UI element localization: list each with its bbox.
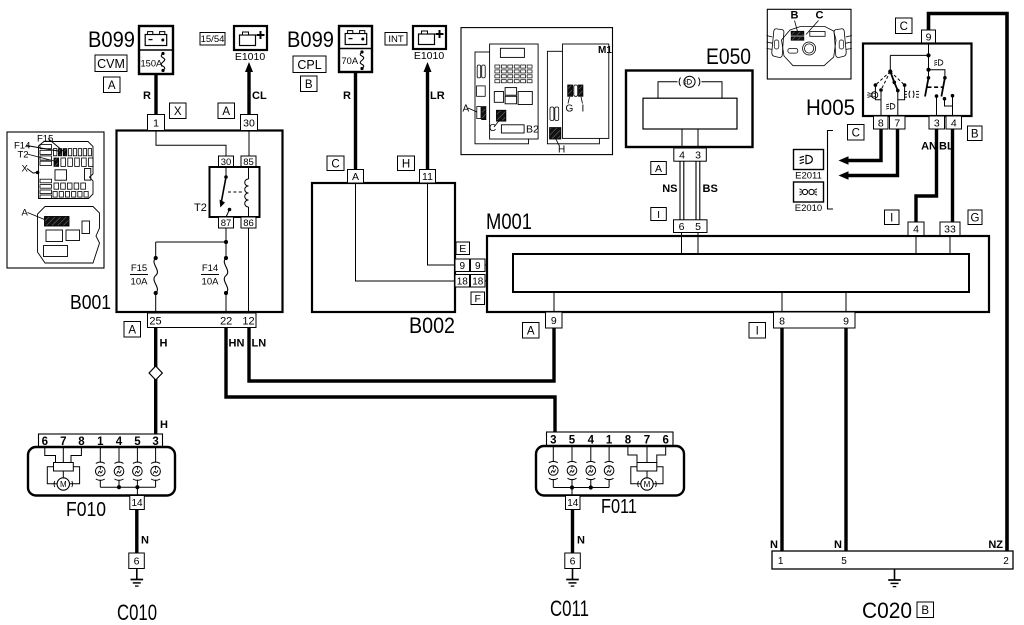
E050 lamp symbol (679, 76, 700, 87)
svg-text:HN: HN (229, 338, 245, 350)
svg-text:15/54: 15/54 (201, 34, 225, 45)
pin 4 (H005 bottom) (946, 116, 962, 129)
svg-text:5: 5 (569, 434, 576, 446)
svg-text:2: 2 (1003, 556, 1009, 567)
svg-text:1: 1 (778, 556, 784, 567)
pin 1 (B001 top) (148, 115, 165, 131)
svg-text:70A: 70A (342, 56, 359, 66)
svg-text:A: A (222, 106, 230, 118)
svg-text:H: H (558, 145, 565, 156)
pin 11 (B002 top) (420, 170, 436, 184)
label box B (H005) (968, 126, 983, 141)
svg-text:C: C (331, 158, 339, 170)
svg-text:5: 5 (695, 221, 701, 233)
svg-text:F15: F15 (37, 134, 53, 145)
front light cluster F011 pin strip (547, 432, 674, 446)
svg-text:AN: AN (921, 141, 937, 153)
relay pin 30 (219, 156, 234, 168)
wire AN H005 pin 3 to M001 pin 4 (916, 129, 937, 222)
svg-text:9: 9 (551, 315, 557, 327)
wire H005 pin 7 to E2010 (839, 129, 898, 180)
wire label H (lower) (160, 419, 168, 431)
wire LR from B002 pin 11 to E1010 (424, 62, 432, 170)
pins 4 3 (E050) (674, 148, 707, 162)
label box X (R wire) (170, 103, 187, 119)
svg-text:4: 4 (679, 150, 685, 162)
svg-text:N: N (577, 535, 585, 547)
wire lamp left (658, 82, 678, 98)
ground stud C020 strip (772, 551, 1013, 569)
svg-text:9: 9 (475, 261, 481, 272)
battery B099 symbol with 70A fuse (339, 26, 372, 72)
F010 lamp pin 5 (133, 447, 143, 487)
svg-text:N: N (141, 535, 149, 547)
relay pin 87 (219, 217, 234, 229)
pin 14 (F011) (566, 496, 581, 510)
svg-text:5: 5 (841, 556, 847, 567)
svg-text:A: A (108, 80, 116, 92)
H005 parking light icon (867, 92, 878, 99)
svg-text:F010: F010 (66, 499, 106, 521)
svg-text:22: 22 (220, 316, 232, 328)
column switch H005 box (863, 44, 972, 117)
svg-text:H: H (402, 158, 410, 170)
wire label BL (939, 141, 954, 153)
svg-text:150A: 150A (141, 59, 164, 69)
inline connector diamond on wire H (149, 366, 162, 380)
svg-text:3: 3 (934, 117, 940, 129)
svg-text:18: 18 (472, 276, 484, 287)
wire 9 into M001 (485, 264, 513, 266)
front light cluster F010 pin strip (39, 434, 163, 448)
pin 9-9 pair (B002/M001) (455, 259, 485, 272)
wire label NS (662, 183, 677, 195)
svg-text:1: 1 (153, 117, 159, 129)
svg-text:10A: 10A (202, 277, 220, 288)
svg-text:I: I (756, 325, 759, 337)
svg-text:C011: C011 (550, 596, 589, 621)
H005 dimmer blade 1 (925, 78, 929, 97)
H005 light switch wiper (890, 72, 899, 93)
H005 node from pin 9 (926, 44, 930, 80)
svg-text:B: B (971, 128, 979, 140)
svg-text:6: 6 (134, 556, 140, 568)
svg-text:E: E (459, 243, 466, 255)
H005 wire to pin 8 (875, 85, 881, 116)
pin 14 (F010) (130, 496, 145, 510)
label box A (M001 bottom) (523, 323, 540, 339)
junction unit B001 box (117, 131, 283, 313)
label box B (C020) (917, 602, 934, 618)
wire label CL (252, 90, 267, 102)
ground C010 label (117, 600, 157, 625)
label box A (E050) (651, 162, 667, 175)
relay T2 link (dashed) (228, 191, 243, 193)
F010 motor circuit (45, 447, 82, 490)
relay pin 85 (241, 156, 256, 168)
svg-text:C020: C020 (862, 598, 912, 623)
svg-text:G: G (971, 212, 980, 224)
H005 side marker icon (904, 91, 919, 98)
body computer M001 outer box (487, 236, 989, 312)
wire R from B099 to B001 pin 1 (154, 74, 157, 115)
svg-text:3: 3 (550, 434, 556, 446)
label box A (CL wire) (218, 103, 235, 119)
svg-text:86: 86 (243, 218, 254, 229)
svg-text:8: 8 (625, 434, 632, 446)
svg-text:M1: M1 (598, 45, 612, 56)
svg-text:6: 6 (570, 556, 576, 568)
wire label BS (703, 183, 718, 195)
svg-text:BS: BS (703, 183, 718, 195)
F011 lamp pin 1 (604, 446, 614, 488)
svg-text:6: 6 (662, 434, 668, 446)
fusebox location diagram (7, 132, 104, 268)
svg-text:4: 4 (913, 224, 919, 236)
high beam lamp E2011 (794, 150, 824, 182)
wire E050 to pin 3 (697, 129, 699, 148)
pin 6 (C010) (129, 553, 145, 569)
wire label N (F010) (141, 535, 149, 547)
bracket grouping E2011/E2010 (828, 131, 834, 210)
wire BS (twin) (696, 161, 700, 220)
wire N from M001 pin 8 to C020 pin 1 (780, 328, 783, 551)
wire M001 to pin 9b bottom (845, 292, 847, 312)
svg-text:E2011: E2011 (795, 171, 822, 182)
svg-text:C: C (852, 127, 860, 139)
fuse F15 value label (130, 263, 148, 288)
H005 wire to pin 3 (935, 94, 939, 116)
label box C (H005 bottom) (848, 125, 865, 141)
svg-text:14: 14 (567, 498, 579, 509)
svg-text:I: I (890, 212, 893, 224)
lamp E2010 (794, 182, 824, 214)
front light cluster F010 body (28, 447, 175, 496)
svg-text:A: A (128, 324, 136, 336)
svg-text:F: F (475, 293, 481, 305)
wire label N (pin 5) (834, 539, 842, 551)
H005 dimmer dashed link (928, 86, 944, 88)
pin 3 (H005 bottom) (929, 116, 945, 129)
svg-text:4: 4 (588, 434, 595, 446)
svg-text:C010: C010 (117, 600, 157, 625)
svg-text:T2: T2 (18, 150, 29, 161)
label box I (H005 wires) (885, 210, 900, 225)
wire B002 pin A to pin 18 (356, 183, 456, 281)
svg-text:F15: F15 (131, 263, 147, 274)
label box A (B099 left) (104, 77, 121, 93)
svg-text:LR: LR (430, 90, 445, 102)
svg-text:A: A (655, 163, 662, 175)
svg-text:CVM: CVM (97, 57, 125, 71)
svg-text:A: A (527, 325, 535, 337)
svg-text:B: B (791, 10, 799, 22)
column switch H005 label (806, 95, 855, 120)
wire M001 to pin 8 bottom (781, 292, 783, 312)
wire N from F010 to C010 (135, 510, 138, 554)
svg-text:M: M (60, 480, 67, 489)
F011 lamp pin 4 (586, 446, 596, 488)
label box C (H005 top) (896, 18, 913, 34)
svg-text:B099: B099 (287, 27, 334, 52)
svg-text:N: N (834, 539, 842, 551)
svg-text:6: 6 (679, 221, 685, 233)
H005 high beam icon (934, 60, 943, 66)
svg-text:R: R (143, 90, 151, 102)
svg-text:B002: B002 (409, 313, 455, 338)
label box H (B002) (398, 156, 415, 171)
wire pin5 into inner box (697, 233, 699, 255)
relay T2 label (194, 202, 207, 214)
B002 label (409, 313, 455, 338)
F011 label (601, 496, 637, 518)
ground C020 label (862, 598, 912, 623)
pin 4 (M001 top) (908, 222, 924, 236)
ground C020 symbol (888, 569, 901, 587)
svg-text:B099: B099 (88, 27, 135, 52)
wire CL from B001 pin 30 to E1010 (245, 62, 253, 115)
svg-text:9: 9 (843, 316, 849, 328)
H005 low beam icon (886, 103, 895, 109)
pin 8 (H005 bottom) (874, 116, 889, 129)
svg-text:INT: INT (388, 34, 404, 45)
svg-text:10A: 10A (131, 277, 149, 288)
wire from H005 pin 9 to C020 pin 2 (right edge) (929, 14, 1008, 552)
wire label LN (252, 338, 267, 350)
svg-text:B: B (921, 605, 929, 617)
svg-text:12: 12 (242, 316, 254, 328)
H005 dimmer link wire (929, 70, 947, 80)
battery node E1010 (left) (234, 26, 267, 63)
headlamp unit E050 box (626, 71, 753, 148)
label box I (E050) (651, 208, 667, 221)
fuse box B002 (312, 183, 455, 312)
relay T2 contact (220, 167, 232, 217)
wire label H (160, 338, 168, 350)
wire label AN (921, 141, 937, 153)
pin 18-18 pair (B002/M001) (455, 275, 485, 288)
label box B (B099 center) (301, 76, 318, 92)
wire pin30 to relay 85 (248, 131, 250, 157)
pin 33 (M001 top) (940, 222, 960, 236)
wire H to F010 pin 3 (154, 328, 157, 434)
pins 25 22 12 (B001 bottom) (148, 313, 257, 328)
B001 label (70, 292, 111, 314)
wire label NZ (988, 539, 1003, 551)
wire lamp right (702, 82, 723, 98)
fuse F14 value label (201, 263, 219, 288)
F010 lamp pin 3 (151, 447, 161, 487)
svg-text:M: M (644, 480, 651, 489)
F010 lamp pin 4 (114, 447, 124, 487)
wire NS (twin) (680, 161, 684, 220)
svg-text:LN: LN (252, 338, 267, 350)
relay pin 86 (241, 217, 256, 229)
label box C (B002) (327, 156, 344, 171)
svg-text:F011: F011 (601, 496, 637, 518)
pin 9 (H005 top) (922, 30, 936, 44)
wire pin4 into inner box (915, 236, 917, 255)
svg-text:1: 1 (606, 434, 613, 446)
node box 15/54 (200, 33, 225, 46)
wire N from M001 pin 9 to C020 pin 5 (844, 328, 847, 551)
ground C011 label (550, 596, 589, 621)
svg-text:I: I (657, 209, 660, 221)
svg-text:3: 3 (695, 150, 701, 162)
svg-text:NZ: NZ (988, 539, 1003, 551)
F010 label (66, 499, 106, 521)
svg-text:E1010: E1010 (414, 50, 445, 62)
H005 contact to pin 4 (943, 94, 955, 116)
relay T2 box (210, 167, 260, 217)
svg-text:E2010: E2010 (795, 203, 822, 214)
pin 6 (C011) (565, 553, 581, 569)
svg-text:25: 25 (149, 316, 161, 328)
E050 inner box (643, 98, 737, 129)
F011 lamp pin 3 (549, 446, 559, 488)
svg-text:E1010: E1010 (235, 51, 266, 63)
svg-text:4: 4 (951, 117, 957, 129)
svg-text:7: 7 (644, 434, 650, 446)
wire pin1 to relay 30 (156, 131, 226, 157)
svg-text:B001: B001 (70, 292, 111, 314)
H005 dimmer blade 2 (941, 78, 945, 97)
wire pin6 into inner box (681, 233, 683, 255)
svg-text:I: I (582, 104, 585, 115)
wire H005 pin 8 to E2011 (839, 129, 882, 165)
svg-text:A: A (352, 171, 359, 183)
svg-text:H: H (160, 419, 168, 431)
svg-text:M001: M001 (486, 209, 532, 234)
battery B099 (left) label (88, 27, 135, 52)
svg-text:B2: B2 (526, 124, 539, 136)
front light cluster F011 body (536, 446, 684, 496)
wire label N (F011) (577, 535, 585, 547)
svg-text:7: 7 (894, 117, 900, 129)
H005 wire to pin 7 (898, 85, 905, 116)
body computer M001 inner box (513, 254, 969, 292)
wire label N (pin 1) (770, 539, 778, 551)
wire 18 into M001 (485, 280, 513, 282)
svg-text:9: 9 (926, 32, 932, 44)
wire 87 to fuse node (156, 228, 228, 244)
battery B099 (center) label (287, 27, 334, 52)
wire BL H005 pin 4 to M001 pin 33 (951, 129, 954, 222)
svg-text:C: C (816, 10, 824, 22)
svg-text:T2: T2 (194, 202, 207, 214)
wire LN to M001 pin 9 (249, 328, 554, 381)
svg-text:C: C (489, 123, 496, 134)
svg-text:R: R (343, 90, 351, 102)
F011 motor circuit (628, 446, 666, 490)
label box I (M001 bottom) (749, 323, 766, 339)
H005 wire to light switch pivot (888, 55, 928, 73)
ground C011 symbol (566, 569, 579, 587)
M001 label (486, 209, 532, 234)
label box A (B001 bottom) (124, 322, 141, 338)
node box INT (385, 33, 407, 46)
svg-text:8: 8 (878, 117, 884, 129)
wire label LR (430, 90, 445, 102)
svg-text:A: A (22, 208, 29, 219)
pin 9 (M001 bottom left) (546, 312, 563, 328)
svg-text:NS: NS (662, 183, 677, 195)
F010 lamp pin 1 (96, 447, 106, 487)
svg-text:A: A (463, 104, 470, 115)
battery node E1010 (center) (413, 26, 446, 62)
label box G (H005 wires) (968, 210, 982, 225)
svg-text:F14: F14 (202, 263, 218, 274)
ground C010 symbol (131, 569, 144, 587)
headlamp unit E050 label (706, 44, 751, 69)
pin 30 (B001 top) (241, 115, 258, 131)
wire E050 to pin 4 (681, 129, 683, 148)
relay T2 coil (245, 167, 249, 217)
svg-text:18: 18 (457, 276, 469, 287)
svg-text:CPL: CPL (297, 58, 321, 72)
wire M001 to pin 9 bottom (553, 292, 555, 312)
pin A (B002 top) (348, 170, 364, 184)
svg-text:E050: E050 (706, 44, 751, 69)
wire label R (center) (343, 90, 351, 102)
svg-text:CL: CL (252, 90, 267, 102)
battery B099 symbol with 150A fuse (139, 26, 173, 74)
label box F (M001 left) (471, 292, 485, 305)
pins 6 5 (M001 top) (674, 220, 708, 233)
connector location diagram (461, 28, 613, 156)
fuse F14 10A (224, 242, 228, 312)
wire label R (143, 90, 151, 102)
svg-text:14: 14 (131, 498, 143, 509)
pin 7 (H005 bottom) (890, 116, 906, 129)
code box CPL (293, 56, 326, 73)
svg-text:N: N (770, 539, 778, 551)
code box CVM (95, 55, 127, 72)
svg-text:H: H (160, 338, 168, 350)
wire 86 to pin 12 (248, 228, 250, 312)
pins 8 9 (M001 bottom right) (774, 312, 856, 328)
svg-text:H005: H005 (806, 95, 855, 120)
wire R from B099 to B002 pin A (354, 72, 357, 170)
svg-text:C: C (900, 21, 908, 33)
svg-text:11: 11 (422, 171, 433, 183)
wire N from F011 to C011 (571, 510, 574, 554)
svg-text:9: 9 (459, 261, 465, 272)
H005 light switch dashed positions (874, 72, 907, 92)
svg-text:30: 30 (243, 117, 255, 129)
label box E (M001 left) (456, 242, 470, 255)
wire label HN (229, 338, 245, 350)
svg-text:8: 8 (779, 316, 785, 328)
F011 lamp pin 5 (567, 446, 577, 488)
F011 lamp bus wire (553, 485, 609, 495)
wire HN to F011 pin 3 (226, 328, 555, 432)
F010 lamp bus wire (100, 485, 155, 495)
wire pin33 into inner box (949, 236, 951, 255)
steering column switch location diagram (767, 9, 852, 79)
svg-text:X: X (174, 106, 182, 118)
svg-text:G: G (566, 104, 574, 115)
svg-text:33: 33 (944, 224, 956, 236)
svg-text:87: 87 (221, 218, 232, 229)
svg-text:B: B (305, 79, 313, 91)
wire B002 pin 11 to pin 9 (428, 183, 456, 265)
fuse F15 10A (154, 242, 158, 312)
